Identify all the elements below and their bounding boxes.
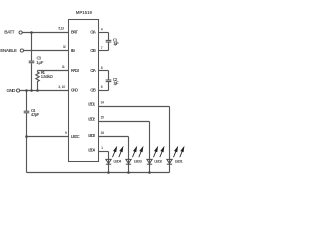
svg-text:GND: GND bbox=[71, 88, 78, 93]
svg-text:LEDC: LEDC bbox=[71, 134, 80, 139]
svg-text:LED3: LED3 bbox=[88, 133, 96, 138]
svg-text:EN: EN bbox=[71, 48, 75, 53]
svg-text:1.54kΩ: 1.54kΩ bbox=[41, 74, 54, 79]
svg-text:3, 10: 3, 10 bbox=[58, 85, 65, 89]
svg-text:15: 15 bbox=[101, 115, 105, 119]
svg-text:7: 7 bbox=[101, 46, 103, 50]
svg-text:LED4: LED4 bbox=[113, 158, 122, 163]
svg-text:ENABLE: ENABLE bbox=[0, 48, 17, 53]
svg-text:1µF: 1µF bbox=[113, 41, 119, 46]
svg-text:14: 14 bbox=[101, 101, 105, 105]
svg-text:LED4: LED4 bbox=[88, 148, 96, 153]
svg-text:11: 11 bbox=[62, 65, 65, 69]
svg-text:LED3: LED3 bbox=[134, 158, 143, 163]
svg-text:1µF: 1µF bbox=[36, 60, 44, 65]
svg-text:6: 6 bbox=[101, 85, 103, 89]
svg-text:1µF: 1µF bbox=[113, 81, 119, 86]
svg-text:LED2: LED2 bbox=[88, 116, 96, 121]
svg-text:16: 16 bbox=[101, 131, 105, 135]
svg-text:GND: GND bbox=[7, 88, 17, 93]
svg-text:9: 9 bbox=[65, 131, 67, 135]
svg-text:RADJ: RADJ bbox=[71, 68, 80, 73]
svg-text:BATT: BATT bbox=[71, 30, 78, 35]
svg-text:MP1519: MP1519 bbox=[76, 10, 93, 16]
svg-text:C1A: C1A bbox=[90, 30, 96, 35]
svg-text:LED1: LED1 bbox=[175, 158, 184, 163]
svg-text:C2A: C2A bbox=[90, 68, 96, 73]
svg-text:BATT: BATT bbox=[4, 29, 14, 34]
svg-text:4: 4 bbox=[101, 28, 103, 32]
svg-text:C1B: C1B bbox=[90, 48, 96, 53]
svg-text:C2B: C2B bbox=[90, 88, 96, 93]
svg-text:LED2: LED2 bbox=[154, 158, 163, 163]
svg-text:12: 12 bbox=[63, 45, 66, 49]
svg-text:5, 13: 5, 13 bbox=[58, 27, 64, 31]
svg-text:LED1: LED1 bbox=[88, 102, 96, 107]
svg-text:1: 1 bbox=[101, 146, 103, 150]
svg-text:4.7µF: 4.7µF bbox=[31, 112, 40, 117]
svg-text:8: 8 bbox=[101, 66, 103, 70]
